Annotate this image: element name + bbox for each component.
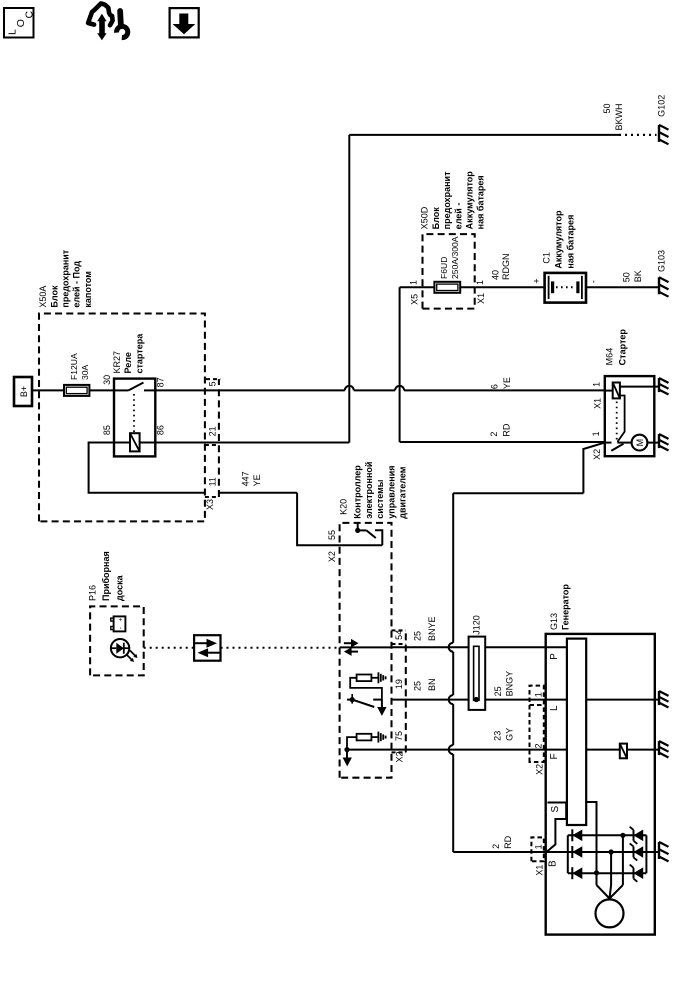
relay switch contact 30-87 xyxy=(114,389,129,391)
svg-text:447: 447 xyxy=(241,471,251,486)
svg-text:19: 19 xyxy=(394,679,404,689)
wire relay 85 up-left to X3 pin 11 xyxy=(89,443,205,493)
connector X3 dashed strip xyxy=(218,379,220,497)
svg-text:F: F xyxy=(549,753,560,759)
P16 battery telltale icon xyxy=(114,616,126,631)
rectifier top rail xyxy=(567,835,569,873)
module K20 dashed box - ECM xyxy=(340,523,392,778)
splice pack J120 xyxy=(469,637,486,710)
wire 25 BN pin 19 to J120 xyxy=(392,699,567,701)
svg-text:+: + xyxy=(118,617,125,621)
K20 charge lamp driver: resistor to ground xyxy=(357,675,372,682)
svg-text:S: S xyxy=(550,806,561,813)
svg-text:C1: C1 xyxy=(541,252,551,264)
wire 23 GY pin 75 to generator F xyxy=(347,749,567,751)
svg-text:KR27: KR27 xyxy=(112,351,122,374)
starter solenoid to case ground xyxy=(620,386,654,388)
svg-text:X2: X2 xyxy=(535,764,545,775)
stator convergence xyxy=(597,885,623,899)
svg-text:25: 25 xyxy=(413,631,423,641)
rectifier bottom rail xyxy=(645,835,647,873)
svg-text:L: L xyxy=(7,29,19,35)
relay actuation dotted link xyxy=(133,394,135,432)
svg-text:25: 25 xyxy=(493,686,503,696)
rectifier zener diodes xyxy=(633,830,635,841)
svg-text:F12UA: F12UA xyxy=(69,353,79,380)
svg-text:K20: K20 xyxy=(339,499,349,515)
svg-text:1: 1 xyxy=(409,280,419,285)
ground G102 xyxy=(658,125,660,142)
svg-text:23: 23 xyxy=(493,731,503,741)
generator B+ output trunk wire with hops xyxy=(452,754,454,852)
svg-text:30: 30 xyxy=(102,375,112,385)
svg-text:BKWH: BKWH xyxy=(614,104,624,131)
rectifier diodes xyxy=(571,829,573,841)
svg-text:стартера: стартера xyxy=(134,333,144,374)
K20 serial data arrows xyxy=(340,646,392,648)
generator B wire joins starter X2 diagonally xyxy=(583,443,604,494)
svg-text:C: C xyxy=(24,11,36,19)
svg-text:доска: доска xyxy=(114,574,124,601)
svg-text:ная батарея: ная батарея xyxy=(566,215,576,269)
svg-text:Контроллер: Контроллер xyxy=(353,465,363,519)
K20 output arrow on 19 circuit xyxy=(381,700,383,707)
svg-text:YE: YE xyxy=(502,377,512,389)
generator S sense line xyxy=(548,802,567,804)
svg-text:BNGY: BNGY xyxy=(505,671,515,697)
svg-text:X50D: X50D xyxy=(420,206,430,229)
starter M64 box xyxy=(605,376,655,456)
relay KR27 box xyxy=(114,379,155,457)
svg-text:1: 1 xyxy=(534,692,544,697)
wire X3-11 to node, toward K20 xyxy=(219,492,297,494)
wire trunk to fuse F6UD xyxy=(400,286,435,288)
svg-text:5: 5 xyxy=(208,381,218,386)
svg-text:+: + xyxy=(532,278,542,283)
svg-text:40: 40 xyxy=(491,270,501,280)
svg-text:1: 1 xyxy=(534,844,544,849)
svg-text:предохранит: предохранит xyxy=(61,249,71,307)
svg-text:Блок: Блок xyxy=(49,285,59,308)
wire fuse to relay pin 30 xyxy=(89,389,114,391)
icon vehicle with arrows and wrench (page header) xyxy=(88,3,113,25)
svg-text:GY: GY xyxy=(505,728,515,741)
svg-text:B+: B+ xyxy=(19,386,29,397)
svg-text:X2: X2 xyxy=(327,551,337,562)
generator B wire through rectifier to ground xyxy=(546,851,658,853)
connector X1 of generator dashed xyxy=(531,837,543,861)
svg-text:Генератор: Генератор xyxy=(561,584,571,630)
wire 2 RD to starter X2 xyxy=(400,441,605,443)
icon down arrow box (page header) xyxy=(170,8,199,37)
svg-text:Стартер: Стартер xyxy=(617,329,627,366)
svg-text:X1: X1 xyxy=(476,293,486,304)
svg-text:предохранит: предохранит xyxy=(442,171,452,229)
svg-text:B: B xyxy=(548,860,559,867)
svg-text:Приборная: Приборная xyxy=(101,551,111,601)
regulator sense tap to stator xyxy=(586,802,596,885)
fuse block X50A dashed box - underhood xyxy=(39,314,205,522)
svg-text:2: 2 xyxy=(489,432,499,437)
generator F line field coil to ground xyxy=(586,749,658,751)
K20 75 circuit: resistor to ground xyxy=(357,734,372,741)
K20 output arrow on 75 circuit xyxy=(346,750,348,758)
svg-text:P: P xyxy=(549,653,560,660)
generator G13 box xyxy=(546,634,655,935)
svg-text:86: 86 xyxy=(156,425,166,435)
B+ power terminal xyxy=(14,377,32,406)
svg-text:M: M xyxy=(635,439,645,447)
svg-text:M64: M64 xyxy=(605,348,615,366)
P16 charge indicator LED xyxy=(111,639,129,657)
svg-text:25: 25 xyxy=(413,681,423,691)
svg-text:75: 75 xyxy=(394,731,404,741)
svg-text:O: O xyxy=(15,19,27,27)
stator winding circle xyxy=(596,899,624,927)
svg-text:30A: 30A xyxy=(80,364,90,380)
svg-text:G13: G13 xyxy=(549,613,559,630)
svg-text:1: 1 xyxy=(592,382,602,387)
K20 driver switch on pin 19 xyxy=(350,678,382,700)
battery trunk wire X5 xyxy=(399,287,401,442)
svg-text:капотом: капотом xyxy=(83,271,93,308)
svg-text:X1: X1 xyxy=(535,865,545,876)
starter solenoid winding xyxy=(605,390,613,392)
svg-text:F6UD: F6UD xyxy=(439,257,449,279)
K20 75 node dot xyxy=(344,747,349,752)
svg-text:1: 1 xyxy=(591,431,601,436)
connector X2 of K20 dashed strip xyxy=(405,630,407,752)
svg-text:BK: BK xyxy=(633,270,643,282)
icon LOC box (page header) xyxy=(4,8,34,38)
svg-text:J120: J120 xyxy=(472,615,482,635)
svg-text:елей - Под: елей - Под xyxy=(72,261,82,308)
svg-text:X3: X3 xyxy=(205,499,215,510)
svg-text:RD: RD xyxy=(502,423,512,436)
svg-text:G103: G103 xyxy=(657,250,667,272)
serial data dotted line P16 to connector xyxy=(144,647,194,649)
starter solenoid actuation dotted xyxy=(616,402,618,440)
svg-text:RD: RD xyxy=(503,835,513,848)
generator L line to ground xyxy=(586,699,658,701)
svg-text:6: 6 xyxy=(490,384,500,389)
fuse F12UA 30A xyxy=(64,385,89,396)
K20 driver transistor for 447 wire xyxy=(340,544,383,546)
svg-text:RDGN: RDGN xyxy=(501,254,511,281)
svg-text:2: 2 xyxy=(491,844,501,849)
svg-text:1: 1 xyxy=(475,280,485,285)
starter pull-in winding link xyxy=(617,396,624,442)
wire 25 BNYE serial data to J120 and generator P xyxy=(392,646,567,648)
svg-text:21: 21 xyxy=(208,426,218,436)
svg-text:11: 11 xyxy=(208,477,218,486)
svg-text:ная батарея: ная батарея xyxy=(476,175,486,229)
serial data dotted line to K20 xyxy=(221,647,340,649)
svg-text:250A/300A: 250A/300A xyxy=(450,236,460,279)
rectifier phase columns xyxy=(568,834,647,836)
generator voltage regulator xyxy=(567,639,586,825)
svg-text:-: - xyxy=(589,280,599,283)
svg-text:-: - xyxy=(118,627,125,629)
svg-text:P16: P16 xyxy=(87,585,97,601)
svg-text:Аккумулятор: Аккумулятор xyxy=(465,171,475,230)
fuse F6UD 250A/300A xyxy=(434,282,460,293)
starter contact xyxy=(605,442,612,444)
svg-text:елей -: елей - xyxy=(453,203,463,230)
instrument panel P16 dashed box xyxy=(90,606,144,675)
svg-text:электронной: электронной xyxy=(364,462,374,519)
relay coil symbol xyxy=(130,433,140,451)
svg-text:2: 2 xyxy=(534,743,544,748)
relay coil wire 85-86 xyxy=(114,442,155,444)
wire battery to G103 xyxy=(586,286,659,288)
svg-text:Реле: Реле xyxy=(123,352,133,373)
svg-text:Аккумулятор: Аккумулятор xyxy=(554,210,564,269)
wire relay 87 / X3 pin 5 down to starter X1 with hops xyxy=(155,389,344,391)
svg-text:50: 50 xyxy=(622,272,632,282)
starter motor xyxy=(617,442,631,444)
svg-text:BN: BN xyxy=(427,678,437,691)
ground G103 xyxy=(658,277,660,294)
svg-text:87: 87 xyxy=(156,377,166,387)
svg-text:управления: управления xyxy=(386,466,396,519)
svg-text:50: 50 xyxy=(602,104,612,114)
wire relay 86 to X3 pin 21 and G102 trunk xyxy=(155,442,349,444)
wire B+ to fuse F12UA xyxy=(32,389,64,391)
svg-text:Блок: Блок xyxy=(431,207,441,230)
svg-text:X50A: X50A xyxy=(38,286,48,308)
svg-text:YE: YE xyxy=(252,474,262,486)
battery C1 xyxy=(545,273,586,303)
svg-text:54: 54 xyxy=(394,630,404,640)
wire trunk down to G102, dotted end xyxy=(349,134,619,136)
wire F6UD to battery xyxy=(460,286,544,288)
svg-text:X2: X2 xyxy=(592,449,602,460)
svg-text:X5: X5 xyxy=(410,294,420,305)
svg-text:двигателем: двигателем xyxy=(398,466,408,518)
wire B down to generator X1 xyxy=(453,851,546,853)
svg-text:BNYE: BNYE xyxy=(427,616,437,641)
stator taps xyxy=(610,852,612,885)
svg-text:55: 55 xyxy=(327,530,337,540)
starter motor to case ground xyxy=(647,442,658,444)
svg-text:L: L xyxy=(549,705,560,711)
connector X2 of generator dashed xyxy=(530,686,544,762)
fuse block X50D dashed box - battery xyxy=(423,234,475,309)
svg-text:X2: X2 xyxy=(395,751,405,762)
in-line serial data connector symbol xyxy=(194,635,220,661)
svg-text:системы: системы xyxy=(375,479,385,518)
svg-text:X1: X1 xyxy=(593,398,603,409)
svg-text:85: 85 xyxy=(102,425,112,435)
svg-text:G102: G102 xyxy=(657,95,667,117)
